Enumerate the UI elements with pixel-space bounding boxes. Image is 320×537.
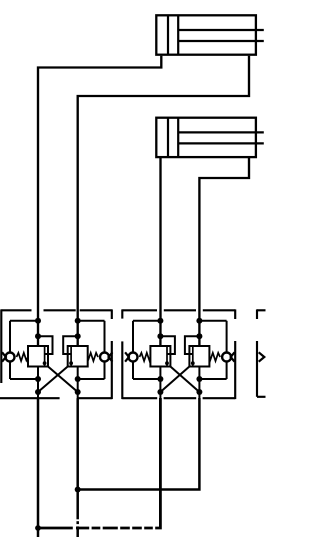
enclosure B1 right edge segment 1 bbox=[111, 309, 113, 319]
junction dot B2R pilot-branch bbox=[196, 333, 202, 339]
check valve B1R seat chevron bbox=[109, 352, 113, 361]
enclosure B1 right edge segment 2 bbox=[111, 341, 113, 399]
junction dot B2L loop-top bbox=[157, 318, 163, 324]
enclosure B1 top edge segment 3 bbox=[80, 309, 112, 311]
enclosure B1 top edge segment 2 bbox=[44, 309, 76, 311]
wire B1R bypass loop bottom segment bbox=[78, 378, 105, 380]
check valve B2L ball bbox=[129, 353, 138, 362]
wire B2L bypass loop vertical upper bbox=[132, 321, 134, 352]
pilot cross line from valve B1L to opposite wire bbox=[48, 367, 78, 393]
cylinder C1 body bbox=[156, 15, 256, 54]
junction dot B1L loop-bottom bbox=[35, 376, 41, 382]
wire B1R through valve (loop bottom to box bottom) bbox=[77, 367, 79, 400]
spring B2R bbox=[209, 353, 220, 361]
wire B2L bypass loop vertical lower bbox=[132, 362, 134, 379]
valve B1R main square bbox=[68, 346, 88, 367]
junction dot B2L loop-bottom bbox=[157, 376, 163, 382]
junction dot B1R loop-bottom bbox=[75, 376, 81, 382]
enclosure B2 left edge segment 2 bbox=[121, 341, 123, 399]
wire B2R bypass loop bottom segment bbox=[199, 378, 226, 380]
enclosure B2 right edge segment 2 bbox=[234, 341, 236, 399]
enclosure B2 top edge segment 1 bbox=[122, 309, 157, 311]
valve B2R pilot piston line bbox=[192, 347, 194, 366]
pilot branch wire B2R bbox=[185, 336, 200, 354]
wire B1R bypass loop top segment bbox=[78, 320, 105, 322]
wire B2R through valve (loop bottom to box bottom) bbox=[198, 367, 200, 400]
enclosure B2 right edge segment 1 bbox=[234, 309, 236, 319]
pilot cross line from valve B1R to opposite wire bbox=[38, 367, 68, 393]
enclosure B1 left edge segment 1 bbox=[0, 309, 2, 383]
watermark breaks (white) over rail bbox=[73, 525, 76, 530]
check valve B1L ball bbox=[6, 353, 15, 362]
valve B1L pilot port dot bbox=[43, 361, 47, 365]
junction dot B1L cross-line bbox=[35, 389, 41, 395]
spring B1R bbox=[88, 353, 98, 361]
cylinder C1 piston right face bbox=[177, 15, 179, 54]
wire from B1 right valve down across rail (node T1) bbox=[76, 398, 79, 537]
cylinder C1 piston left face bbox=[167, 15, 169, 54]
check valve B2L seat chevron bbox=[125, 352, 129, 361]
junction dot B2R cross-line bbox=[196, 389, 202, 395]
cylinder C2 piston right face bbox=[177, 118, 179, 157]
wire B2R bypass loop vertical lower bbox=[226, 362, 228, 379]
enclosure B2 bottom edge segment 3 bbox=[203, 397, 236, 399]
junction dot B2R loop-top bbox=[196, 318, 202, 324]
wire B2L through valve (loop bottom to box bottom) bbox=[159, 367, 161, 400]
spring B2L bbox=[140, 353, 151, 361]
junction dot B1R pilot-branch bbox=[75, 333, 81, 339]
wire C2 cap-end port to valve block B2 right (node B2) bbox=[199, 157, 249, 346]
valve B2L pilot piston line bbox=[166, 347, 168, 366]
cylinder C1 rod upper line bbox=[178, 29, 264, 31]
cylinder C1 rod lower line bbox=[178, 40, 264, 42]
enclosure B2 bottom edge segment 1 bbox=[122, 397, 157, 399]
wire B2R bypass loop vertical upper bbox=[226, 321, 228, 352]
junction dot B1L pilot-branch bbox=[35, 333, 41, 339]
pilot branch wire B1R bbox=[63, 336, 77, 354]
check valve B1L seat chevron bbox=[2, 352, 6, 361]
check valve B1R ball bbox=[100, 353, 109, 362]
valve B2R pilot port dot bbox=[191, 361, 195, 365]
junction dot rail left end bbox=[35, 525, 41, 531]
pilot branch wire B2L bbox=[160, 336, 175, 354]
valve B1R pilot piston line bbox=[70, 347, 72, 366]
cylinder C2 rod lower line bbox=[178, 142, 264, 144]
pilot cross line from valve B2R to opposite wire bbox=[160, 367, 189, 393]
wire B1L bypass loop top segment bbox=[10, 320, 38, 322]
cylinder C2 rod upper line bbox=[178, 131, 264, 133]
wire C2 rod-end port to valve block B2 left (node A2) bbox=[159, 157, 161, 346]
enclosure B2 left edge segment 1 bbox=[121, 309, 123, 318]
enclosure B1 top edge segment 1 bbox=[1, 309, 31, 311]
check valve B3L seat chevron (partial block) bbox=[259, 352, 265, 361]
valve B2L main square bbox=[150, 346, 170, 367]
junction dot B1R cross-line bbox=[75, 389, 81, 395]
enclosure B2 bottom edge segment 2 bbox=[164, 397, 197, 399]
wire B2R bypass loop top segment bbox=[199, 320, 226, 322]
pilot cross line from valve B2L to opposite wire bbox=[170, 367, 199, 393]
junction dot B2R loop-bottom bbox=[196, 376, 202, 382]
junction dot B2L pilot-branch bbox=[157, 333, 163, 339]
wire C1 rod-end port to valve block B1 left (node A1) bbox=[38, 56, 161, 346]
wire from B1 left valve down to tank rail (node P1) bbox=[37, 398, 40, 537]
enclosure B3 left edge segment 1 bbox=[256, 309, 258, 319]
check valve B2R seat chevron bbox=[231, 352, 235, 361]
wire B2L bypass loop top segment bbox=[133, 320, 160, 322]
enclosure B1 bottom edge segment 1 bbox=[0, 397, 60, 399]
wire B1L through valve (loop bottom to box bottom) bbox=[37, 367, 39, 400]
spring B1L bbox=[17, 353, 29, 361]
wire B1L bypass loop vertical lower bbox=[9, 362, 11, 379]
wire from B2 right valve down then left to node T1 bbox=[78, 398, 200, 490]
junction dot B1R loop-top bbox=[75, 318, 81, 324]
valve B2L pilot port dot bbox=[165, 361, 169, 365]
enclosure B3 top edge (partial) segment 1 bbox=[257, 309, 266, 311]
junction dot node T1 bbox=[75, 487, 81, 493]
wire B2L bypass loop bottom segment bbox=[133, 378, 160, 380]
junction dot B1L loop-top bbox=[35, 318, 41, 324]
wire B1L bypass loop vertical upper bbox=[9, 321, 11, 352]
enclosure B3 left edge segment 2 bbox=[256, 341, 258, 397]
junction dot B2L cross-line bbox=[157, 389, 163, 395]
wire C1 cap-end port to valve block B1 right (node B1) bbox=[78, 56, 249, 346]
wire from B2 left valve down to rail corner bbox=[38, 398, 160, 528]
wire B1L bypass loop bottom segment bbox=[10, 378, 38, 380]
enclosure B2 top edge segment 2 bbox=[164, 309, 196, 311]
valve B1L main square bbox=[28, 346, 48, 367]
enclosure B1 bottom edge segment 2 bbox=[78, 397, 112, 399]
valve B2R main square bbox=[189, 346, 209, 367]
check valve B2R ball bbox=[222, 353, 231, 362]
cylinder C2 body bbox=[156, 118, 256, 157]
wire B1R bypass loop vertical lower bbox=[104, 362, 106, 379]
cylinder C2 piston left face bbox=[167, 118, 169, 157]
enclosure B2 top edge segment 3 bbox=[203, 309, 235, 311]
valve B1L pilot piston line bbox=[44, 347, 46, 366]
pilot branch wire B1L bbox=[38, 336, 53, 354]
enclosure B3 bottom edge (partial) segment 1 bbox=[257, 396, 266, 398]
valve B1R pilot port dot bbox=[69, 361, 73, 365]
wire B1R bypass loop vertical upper bbox=[104, 321, 106, 352]
